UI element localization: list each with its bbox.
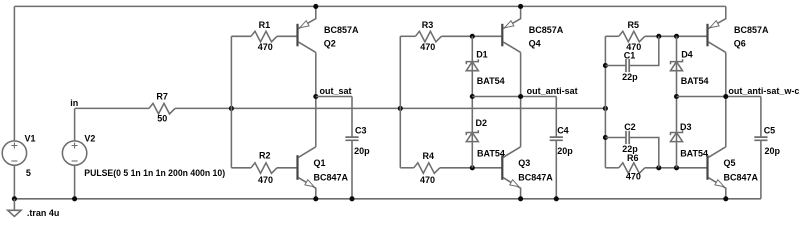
wire C5 bottom lead [760,140,762,199]
junction in wire stage2 [398,106,403,111]
resistor R5 [619,31,645,42]
svg-text:D2: D2 [476,118,488,128]
svg-text:Q6: Q6 [734,39,746,49]
wire out_anti-sat stub [472,96,556,98]
resistor R7 [149,103,175,114]
wire C4 top lead [555,97,557,138]
wire C1 right lead [629,36,659,65]
svg-text:470: 470 [420,42,435,52]
svg-text:50: 50 [157,114,167,124]
svg-text:470: 470 [420,175,435,185]
capacitor C3 [345,137,358,140]
svg-text:D3: D3 [680,122,692,132]
capacitor C1 [626,59,629,72]
svg-text:V2: V2 [84,133,95,143]
wire C4 bottom lead [555,140,557,199]
svg-text:R4: R4 [423,151,435,161]
wire top supply rail [14,5,725,7]
wire stage2 left vertical [399,36,401,168]
junction D2 bottom [470,165,475,170]
wire R2 to Q1 base [277,167,298,169]
wire stage3 left vertical [604,36,606,168]
svg-text:BAT54: BAT54 [681,76,709,86]
diode D1 BAT54 [466,59,478,70]
svg-text:Q3: Q3 [518,158,530,168]
wire in right segment [175,107,605,109]
junction in wire stage1 [229,106,234,111]
wire V1 to top rail [13,6,15,141]
svg-text:C2: C2 [624,122,636,132]
wire R1 to Q2 base [277,35,298,37]
junction V2 bottom rail [72,196,77,201]
svg-text:BC847A: BC847A [314,173,349,183]
wire C5 top lead [760,97,762,138]
wire V1 to bottom rail [13,165,15,199]
wire collector line stage3 [725,52,727,146]
junction C2 right bottom [656,165,661,170]
wire R5 left lead [605,35,618,37]
voltage source V1 [2,141,26,165]
wire collector line stage1 [315,52,317,146]
transistor Q6 [708,6,726,52]
svg-text:20p: 20p [765,146,781,156]
junction Q5 emitter bottom rail [723,196,728,201]
transistor Q4 [502,6,520,52]
transistor Q1 [298,147,316,199]
wire R3 to Q4 base [441,35,502,37]
svg-text:5: 5 [26,168,31,178]
svg-text:R2: R2 [259,151,271,161]
wire C3 bottom lead [351,140,353,199]
wire out_anti-sat_w-c stub [677,96,761,98]
resistor R6 [619,163,645,174]
wire bottom ground rail [14,198,761,200]
wire V2 to bottom rail [74,165,76,199]
svg-text:C5: C5 [764,125,776,135]
junction Q1 emitter bottom rail [313,196,318,201]
svg-text:D1: D1 [476,50,488,60]
svg-text:R6: R6 [627,153,639,163]
wire D1 D2 vertical [471,36,473,168]
junction C4 bottom rail [554,196,559,201]
junction Q3 emitter bottom rail [518,196,523,201]
svg-text:R3: R3 [422,20,434,30]
svg-text:22p: 22p [622,144,638,154]
resistor R4 [414,163,440,174]
wire stage1 left vertical [230,36,232,168]
wire in left segment [75,107,149,109]
wire R1 left lead [231,35,251,37]
junction D4 D3 midpoint [674,94,679,99]
svg-text:R5: R5 [628,20,640,30]
resistor R2 [251,163,277,174]
junction D4 top [674,34,679,39]
svg-text:Q1: Q1 [314,158,326,168]
wire R2 left lead [231,167,251,169]
wire R3 left lead [400,35,415,37]
wire C1 left lead [605,65,626,67]
junction in wire stage3 [603,106,608,111]
svg-text:Q4: Q4 [529,39,541,49]
svg-text:C1: C1 [624,51,636,61]
svg-text:BC857A: BC857A [529,25,564,35]
svg-text:BAT54: BAT54 [477,148,505,158]
svg-text:BC847A: BC847A [724,173,759,183]
svg-text:470: 470 [626,172,641,182]
ground symbol [8,210,21,216]
junction Q2 emitter top rail [313,4,318,9]
svg-text:in: in [70,98,78,108]
node out_anti-sat junction [518,94,523,99]
svg-text:Q5: Q5 [724,158,736,168]
capacitor C4 [550,137,563,140]
wire V2 to in node [74,108,76,140]
svg-text:22p: 22p [622,72,638,82]
diode D2 BAT54 [466,130,478,142]
capacitor C2 [626,131,629,144]
svg-text:20p: 20p [354,146,370,156]
wire C2 left lead [605,137,626,139]
voltage source V2 [62,141,86,165]
diode D4 BAT54 [671,59,683,70]
transistor Q3 [502,147,520,199]
svg-text:V1: V1 [25,133,36,143]
wire R6 to Q5 base [645,167,708,169]
junction C1 right top [656,34,661,39]
resistor R3 [415,31,441,42]
svg-text:C4: C4 [557,125,569,135]
junction D1 D2 midpoint [470,94,475,99]
svg-text:C3: C3 [355,125,367,135]
wire C3 top lead [351,97,353,138]
wire D4 D3 vertical [676,36,678,168]
junction Q4 emitter top rail [518,4,523,9]
wire R4 to Q3 base [440,167,503,169]
node out_anti-sat_w-c junction [723,94,728,99]
svg-text:.tran 4u: .tran 4u [27,208,60,218]
diode D3 BAT54 [671,130,683,142]
svg-text:470: 470 [258,42,273,52]
svg-text:20p: 20p [557,146,573,156]
svg-text:470: 470 [258,175,273,185]
junction C1 left [603,63,608,68]
svg-text:BC847A: BC847A [518,173,553,183]
transistor Q2 [298,6,316,52]
junction C3 bottom rail [349,196,354,201]
svg-text:BC857A: BC857A [734,25,769,35]
wire out_sat stub [316,96,352,98]
svg-text:BC857A: BC857A [324,25,359,35]
wire R6 left lead [605,167,618,169]
wire collector line stage2 [520,52,522,146]
svg-text:out_sat: out_sat [320,86,352,96]
svg-text:PULSE(0 5 1n 1n 1n 200n 400n 1: PULSE(0 5 1n 1n 1n 200n 400n 10) [84,168,225,178]
svg-text:R1: R1 [259,20,271,30]
junction ground node [12,196,17,201]
transistor Q5 [708,147,726,199]
svg-text:R7: R7 [156,92,168,102]
wire R5 to Q6 base [645,35,708,37]
junction C2 left [603,135,608,140]
svg-text:BAT54: BAT54 [477,76,505,86]
node out_sat junction [313,94,318,99]
wire ground stem [13,199,15,211]
junction D3 bottom [674,165,679,170]
svg-text:Q2: Q2 [324,39,336,49]
junction D1 top [470,34,475,39]
wire R4 left lead [400,167,414,169]
resistor R1 [251,31,277,42]
svg-text:out_anti-sat_w-c: out_anti-sat_w-c [728,86,799,96]
svg-text:D4: D4 [681,50,693,60]
svg-text:out_anti-sat: out_anti-sat [527,86,578,96]
svg-text:BAT54: BAT54 [680,148,708,158]
capacitor C5 [754,137,767,140]
wire C2 right lead [629,138,659,168]
